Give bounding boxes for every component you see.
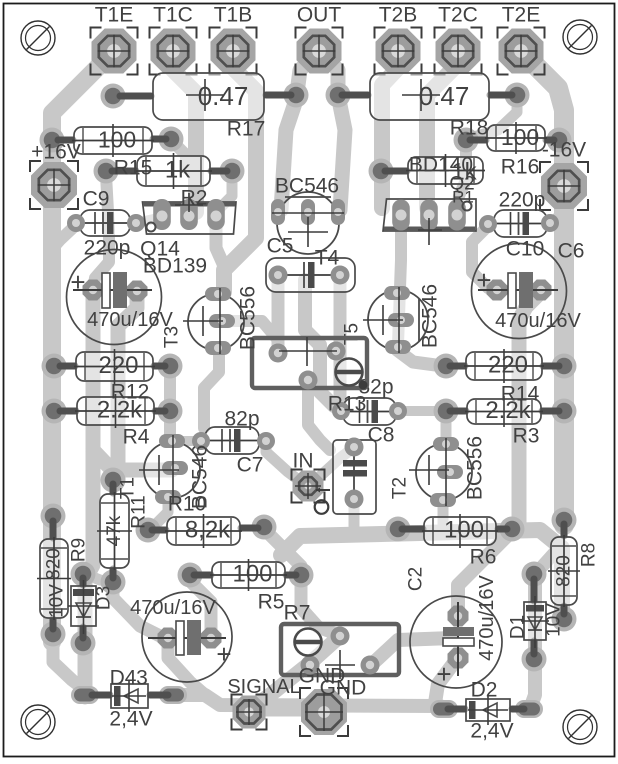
svg-text:BC556: BC556 [237,286,260,350]
mounting hole [563,20,597,54]
resistor R5 [210,559,287,591]
svg-text:+: + [436,659,451,689]
svg-text:R9: R9 [69,538,90,562]
svg-text:R2: R2 [181,187,208,210]
wire C6 down [519,292,541,528]
svg-text:R7: R7 [284,602,311,625]
diode D2 zener [466,695,510,725]
node D2.1 [430,700,458,718]
node R3.2 [552,399,577,424]
electrolytic capacitor C3 470u [142,592,232,682]
node D4.2 [159,686,187,704]
wire trimmer wiper [308,384,330,450]
svg-text:T1E: T1E [95,4,134,27]
resistor R18 [370,73,489,120]
wire R2 to Q4 [220,174,232,208]
wire C2 to D2 [435,660,456,703]
resistor R14 [464,349,544,383]
wire Q2 to T5 [398,218,401,345]
svg-text:R5: R5 [258,591,285,614]
node D3.1 [71,562,96,587]
node R3.1 [434,399,459,424]
svg-text:2,4V: 2,4V [109,708,152,731]
node R16.2 [547,128,572,153]
wire mid horizontal [281,530,562,614]
svg-text:47k: 47k [104,515,125,546]
wire R6 to C2 [458,531,512,612]
wire R15 to R2 [171,140,186,168]
electrolytic capacitor C1 470u [67,250,162,345]
wire R17 to T4 [281,97,297,210]
node R8.1 [552,508,577,533]
capacitor C7 82p [200,427,267,454]
resistor R3 [465,396,543,427]
svg-text:220: 220 [98,352,138,379]
svg-text:R1: R1 [452,188,474,207]
svg-text:2.2k: 2.2k [97,397,143,424]
transistor T3 BC556 [188,294,244,350]
capacitor C5 [266,258,355,292]
pad T2E [499,29,544,74]
node R4.2 [158,399,183,424]
svg-text:T1C: T1C [153,4,193,27]
svg-text:10V: 10V [544,603,565,637]
svg-text:470u/16V: 470u/16V [495,310,581,332]
wire T2C to Q2 [427,51,458,208]
node R12.1 [42,354,67,379]
node R15.1 [40,128,65,153]
svg-text:SIGNAL: SIGNAL [227,676,300,698]
resistor R17 [153,73,264,120]
pad T1B [211,29,256,74]
node R2.2 [220,159,245,184]
resistor R4 [75,394,156,428]
svg-text:R3: R3 [513,425,540,448]
node R5.1 [178,563,203,588]
wire C5 center to C8 [305,280,334,406]
wire IN to C4 [316,449,352,480]
svg-text:D2: D2 [471,679,498,702]
wire C4 down [349,502,360,526]
capacitor C4 [333,440,376,514]
transistor T4 BC546 [277,192,339,254]
wire D3 to R11 [85,574,110,582]
node R12.2 [158,354,183,379]
svg-text:IN: IN [293,450,314,473]
wire C9 to rail [53,225,76,248]
svg-text:T2E: T2E [502,4,541,27]
svg-text:C7: C7 [237,454,264,477]
electrolytic capacitor C6 470u [472,244,567,339]
transistor Q2 BD140 [383,199,476,232]
svg-text:R17: R17 [227,118,266,141]
svg-text:2,4V: 2,4V [470,720,513,743]
svg-text:BC546: BC546 [419,284,442,348]
node D4.1 [71,686,99,704]
wire C1 to R11 [118,292,137,478]
pad T1E [92,29,137,74]
svg-text:T5: T5 [342,323,363,345]
svg-text:C6: C6 [558,240,585,263]
mounting hole [21,705,55,739]
node R6.2 [500,517,525,542]
resistor R8 820 [548,535,580,607]
node R2.1 [94,159,119,184]
svg-text:3: 3 [136,667,148,690]
via [315,500,329,514]
wire T1B to T3 [224,51,256,292]
resistor R15 [72,124,154,157]
wire R16 to Q2 [457,142,466,212]
wire Q4 to T3 [216,222,224,266]
wire T3 to trimmer [225,321,278,350]
wire OUT to R18 [319,51,338,93]
node R15.2 [159,127,184,152]
wire bend to D1 [539,550,557,570]
node D1.1 [522,562,547,587]
node R17.2 [284,83,309,108]
wire C9 to Q4 [136,218,158,223]
svg-text:R16: R16 [501,156,540,179]
capacitor C10 220p [487,210,551,237]
svg-text:2.2k: 2.2k [485,397,531,424]
node R17.1 [101,84,126,109]
svg-text:R6: R6 [470,546,497,569]
capacitor C9 220p [75,210,137,236]
wire C3 to GND [168,640,205,695]
svg-text:BC546: BC546 [189,445,212,509]
trimmer R7 [281,624,399,675]
svg-text:T2B: T2B [379,4,418,27]
resistor R16 [485,122,547,154]
svg-text:T3: T3 [162,326,183,348]
wire T1C to Q4 [173,51,196,212]
svg-text:C2: C2 [406,567,427,591]
svg-text:BC546: BC546 [275,175,339,198]
wire C1 branch to T1 base [93,450,172,470]
svg-text:T4: T4 [315,247,340,270]
wire R9 bottom [53,636,85,690]
node R16.1 [454,128,479,153]
svg-text:T1B: T1B [214,4,253,27]
svg-text:470u/16V: 470u/16V [476,575,498,661]
svg-text:0.47: 0.47 [198,81,249,111]
node R18.2 [505,83,530,108]
svg-text:+16V: +16V [31,141,81,164]
svg-text:100: 100 [232,561,272,588]
svg-text:+: + [70,267,85,297]
wire R18 to R16 [470,97,517,138]
node R14.1 [434,354,459,379]
svg-text:D4: D4 [110,667,137,690]
node D1.2 [522,647,547,672]
resistor R1 [406,154,485,187]
pad T2C [436,29,481,74]
pad -16V [541,163,587,209]
svg-text:+: + [476,265,491,295]
wire C8 to R3 [398,406,442,416]
svg-text:R18: R18 [450,117,489,140]
transistor T1 BC546 [144,442,200,498]
svg-text:C8: C8 [368,424,395,447]
svg-text:BC556: BC556 [464,436,487,500]
wire C7 to IN [266,441,300,481]
svg-text:R4: R4 [123,426,150,449]
pad IN [293,471,324,502]
svg-text:GND: GND [320,677,367,700]
diode D3 zener [68,580,99,634]
svg-text:0.47: 0.47 [419,81,470,111]
wire T5 to R14 [397,350,443,366]
wire C5 to C8 [334,279,347,406]
svg-text:BD139: BD139 [143,255,207,278]
svg-text:T1: T1 [118,477,139,499]
node D3.2 [71,631,96,656]
capacitor C8 82p [340,398,399,425]
svg-text:100: 100 [501,124,539,150]
resistor R9 820 [37,537,71,620]
node R9.2 [41,622,66,647]
node R10.2 [252,515,277,540]
diode D1 zener [521,596,549,648]
svg-text:OUT: OUT [297,4,342,27]
diode D4 zener [111,680,148,712]
svg-text:C9: C9 [83,188,110,211]
transistor T5 BC546 [368,290,428,350]
svg-text:8,2k: 8,2k [185,517,231,544]
resistor R12 [74,349,155,384]
resistor R2 [135,153,212,189]
resistor R10 [165,514,242,548]
wire C10 to rail [550,214,561,223]
wire R18 to T4 [338,95,345,210]
pad SIGNAL GND [233,696,266,729]
wire T2E -16V rail [521,51,564,525]
mounting hole [563,710,597,744]
wire R7 wiper to SIGNAL [252,636,340,708]
svg-text:D1: D1 [508,615,529,639]
node IN stub [316,489,330,491]
wire R10 to R5 [264,529,301,575]
wire T2 down [438,500,449,524]
wire T3 to C7 [204,350,219,428]
wire R12 to T1 [164,368,176,438]
wire T2B to Q2 [382,51,398,208]
electrolytic capacitor C2 470u [410,596,502,688]
node R9.1 [41,504,66,529]
wire R5 to R7 [301,577,336,634]
svg-text:T2: T2 [390,477,411,499]
wire GND bottom [173,695,440,706]
svg-text:100: 100 [444,517,484,544]
node R14.2 [552,354,577,379]
svg-text:220: 220 [488,352,528,379]
svg-text:R11: R11 [129,495,150,528]
svg-text:R8: R8 [579,543,600,567]
svg-text:10V: 10V [47,584,68,618]
node R8.2 [552,607,577,632]
transistor T2 BC556 [416,444,472,500]
wire C10 to C6 [472,226,488,288]
svg-text:220p: 220p [499,189,546,212]
node R11.2 [101,570,126,595]
resistor R11 47k [97,492,132,570]
svg-text:100: 100 [98,127,136,153]
wire +16V rail [52,51,114,642]
wire D1 column [531,575,535,706]
svg-text:D3: D3 [94,586,115,610]
node R11.1 [101,468,126,493]
wire R11 to C3 [113,584,160,636]
wire C5 to trimmer [272,279,285,348]
wire SIGNAL to GND [249,706,330,717]
wire R2 to C1 [93,175,109,290]
transistor Q4 BD139 [143,202,237,235]
wire T2 to R3 [441,414,452,444]
mounting hole [21,21,55,55]
svg-text:470u/16V: 470u/16V [130,597,216,619]
wire R7 to C2 [370,638,452,666]
svg-text:C5: C5 [267,235,294,258]
svg-text:+: + [216,639,231,669]
svg-text:820: 820 [44,548,65,580]
wire T1 to R10 [154,499,168,526]
node D2.2 [515,700,543,718]
svg-text:-16V: -16V [542,139,586,162]
resistor R6 [422,514,498,548]
wire OUT to R17 [297,51,319,93]
wire C7 to T1 [178,436,203,446]
wire C1+ to D4 [85,292,93,697]
svg-text:1k: 1k [165,157,191,184]
pad GND [301,689,347,735]
pad T1C [151,29,196,74]
pad T2B [376,29,421,74]
svg-text:82p: 82p [224,408,259,431]
svg-text:820: 820 [554,555,575,587]
svg-text:C10: C10 [506,238,545,261]
pad OUT [297,29,342,74]
node R6.1 [386,517,411,542]
svg-text:220p: 220p [84,237,131,260]
node R1.1 [369,159,394,184]
node R10.1 [136,518,161,543]
node R18.1 [326,83,351,108]
svg-text:R15: R15 [114,157,153,180]
wire C3 to R5 [190,577,211,636]
node R4.1 [42,399,67,424]
trimmer P1 [252,338,367,388]
pad +16V [31,162,77,208]
svg-text:R13: R13 [328,393,367,416]
node R5.2 [289,563,314,588]
svg-text:T2C: T2C [438,4,478,27]
